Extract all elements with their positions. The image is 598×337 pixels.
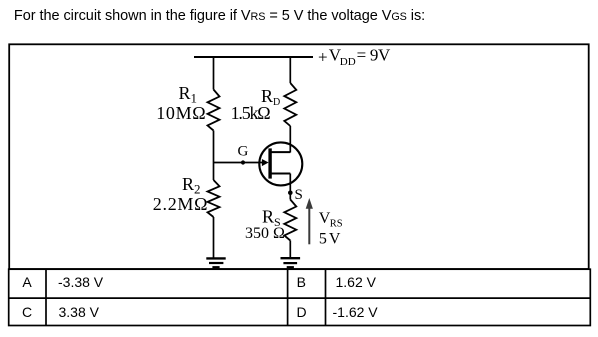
svg-text:C: C [22, 304, 32, 320]
svg-text:1.5kΩ: 1.5kΩ [231, 103, 271, 123]
svg-text:3.38 V: 3.38 V [59, 304, 100, 320]
svg-text:G: G [238, 144, 249, 160]
svg-text:350 Ω: 350 Ω [245, 225, 285, 242]
svg-text:10MΩ: 10MΩ [156, 103, 206, 123]
svg-text:+: + [318, 48, 328, 67]
svg-text:= 9V: = 9V [357, 46, 391, 65]
svg-text:-3.38 V: -3.38 V [58, 274, 104, 290]
svg-text:S: S [295, 187, 303, 203]
svg-text:RS: RS [330, 219, 343, 230]
svg-text:5V: 5V [319, 230, 343, 247]
svg-text:D: D [296, 304, 306, 320]
svg-text:B: B [297, 274, 306, 290]
svg-text:For the circuit shown in the f: For the circuit shown in the figure if V… [14, 8, 425, 24]
svg-text:2.2MΩ: 2.2MΩ [153, 194, 208, 214]
svg-text:DD: DD [340, 56, 356, 68]
svg-text:1.62 V: 1.62 V [336, 274, 377, 290]
svg-text:A: A [22, 274, 32, 290]
svg-text:-1.62 V: -1.62 V [333, 304, 379, 320]
